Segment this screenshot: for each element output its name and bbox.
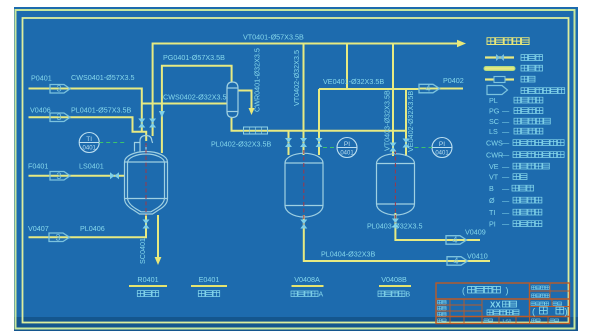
svg-text:3: 3 (56, 84, 61, 94)
text legend desc 无缝钢管 (513, 197, 542, 203)
svg-text:—: — (502, 208, 510, 217)
pipe VT0401-VE0401 tie (346, 44, 348, 90)
svg-text:V0406: V0406 (30, 106, 51, 115)
svg-text:V0407: V0407 (28, 224, 49, 233)
equipment tag V0408B (381, 275, 407, 284)
svg-text:VE: VE (489, 162, 499, 171)
vessel R0401 jacketed still (125, 136, 168, 215)
svg-text:—: — (502, 184, 510, 193)
svg-text:4: 4 (425, 84, 430, 94)
pipe VT0401 vapour header (153, 44, 459, 137)
svg-text:E0401: E0401 (199, 275, 220, 284)
centerline R0401 (145, 143, 147, 216)
valve on CWS0401 riser (138, 119, 145, 128)
svg-text:—: — (502, 139, 510, 148)
svg-text:PL0403-Ø32X3.5: PL0403-Ø32X3.5 (367, 222, 423, 231)
svg-text:VT0401-Ø57X3.5B: VT0401-Ø57X3.5B (243, 33, 304, 42)
pipe CWS0402 branch (142, 103, 227, 105)
connector pentagon V0406 (50, 113, 70, 122)
instrument PI0401 bubble B (432, 138, 452, 158)
instrument line PI-B (415, 147, 433, 149)
vessel V0408B (377, 154, 415, 215)
svg-text:V0408A: V0408A (294, 275, 320, 284)
text title tiny 设计 (438, 300, 447, 304)
svg-text:VE0401-Ø32X3.5B: VE0401-Ø32X3.5B (323, 77, 384, 86)
text title 工段 (503, 301, 517, 307)
svg-text:0401: 0401 (340, 150, 354, 156)
svg-text:PL0404-Ø32X3B: PL0404-Ø32X3B (321, 250, 376, 259)
text title 蒸馏流程图 (487, 310, 519, 315)
pipe VT0402 riser (303, 44, 305, 156)
svg-text:V0409: V0409 (465, 228, 486, 237)
pipe SC0401 drain (157, 215, 159, 259)
text legend desc 不锈钢 (512, 185, 534, 191)
svg-text:LS: LS (489, 127, 498, 136)
valve on PL0403 outlet (392, 219, 399, 228)
svg-text:CWR0401-Ø32X3.5: CWR0401-Ø32X3.5 (253, 48, 262, 112)
svg-text:VT: VT (489, 173, 499, 182)
svg-text:PG: PG (489, 107, 500, 116)
arrowhead SC0401 down (155, 257, 162, 265)
svg-text:PL0402-Ø32X3.5B: PL0402-Ø32X3.5B (211, 140, 272, 149)
svg-text:PI: PI (489, 220, 496, 229)
legend symbol continuation mark (487, 86, 508, 95)
centerline V0408B (394, 150, 396, 223)
pipe LS0401 main (29, 175, 126, 177)
svg-text:B: B (406, 292, 411, 299)
instrument line PI-A (323, 147, 337, 149)
vessel V0408A (285, 153, 323, 217)
svg-text:—: — (502, 127, 510, 136)
svg-text:—: — (502, 117, 510, 126)
valve on V0408A nozzle 3 (316, 138, 323, 147)
valve on VE0402 drop (403, 139, 410, 148)
svg-text:P0402: P0402 (443, 76, 464, 85)
text title tiny 比例 (484, 319, 493, 323)
pipe PL0404 from V0408A (304, 215, 490, 261)
svg-text:3: 3 (56, 171, 61, 181)
equipment tag R0401 (137, 275, 158, 284)
connector pentagon P0401 (50, 85, 70, 94)
connector pentagon V0410 (447, 257, 468, 266)
text title tiny 共页 (532, 319, 541, 323)
text legend title 图例及代号 (487, 38, 529, 45)
svg-text:1:50: 1:50 (502, 319, 512, 325)
vessel R0401 gooseneck (140, 136, 153, 152)
svg-text:SC0401: SC0401 (138, 238, 147, 264)
svg-text:CWS0401-Ø57X3.5: CWS0401-Ø57X3.5 (71, 73, 135, 82)
pipe VT0403 riser (392, 44, 394, 157)
svg-text:P0401: P0401 (31, 74, 52, 83)
svg-text:(: ( (462, 286, 465, 296)
pipe VE0402 drop (405, 89, 407, 156)
pipe PL0403 from V0408B (395, 213, 480, 240)
svg-text:VE0402-Ø32X3.5B: VE0402-Ø32X3.5B (406, 91, 415, 152)
text legend desc 压力指示 (513, 221, 542, 227)
vessel R0401 neck (135, 143, 147, 152)
svg-text:—: — (502, 107, 510, 116)
title block right cells (530, 290, 570, 292)
pipe CWS0401 main (29, 89, 142, 133)
valve on PL0404 outlet (300, 220, 307, 229)
text legend desc 循环冷却水回水 (513, 152, 564, 158)
svg-text:PG0401-Ø57X3.5B: PG0401-Ø57X3.5B (163, 53, 225, 62)
centerline V0408A (303, 150, 305, 225)
vessel E0401 condenser (227, 82, 238, 118)
text legend desc 循环冷却水上水 (513, 140, 564, 146)
svg-text:PL0401-Ø57X3.5B: PL0401-Ø57X3.5B (71, 106, 132, 115)
arrowhead CWR0401 down (249, 108, 255, 115)
svg-text:CWR: CWR (486, 151, 503, 160)
svg-text:XX: XX (490, 301, 501, 310)
text legend desc 温度指示 (513, 209, 542, 215)
svg-text:—: — (502, 196, 510, 205)
pipe PL0402 condenser bottom manifold (232, 118, 407, 131)
svg-text:PL0406: PL0406 (80, 224, 105, 233)
svg-text:TI: TI (489, 208, 495, 217)
svg-text:0401: 0401 (435, 150, 449, 156)
text title tiny 审定 (438, 319, 447, 323)
svg-text:—: — (502, 173, 510, 182)
legend symbol stop valve (485, 54, 514, 61)
pipe VE0401 drop into manifold (318, 89, 320, 155)
legend symbol insulated pipe (486, 66, 513, 71)
title block left cells (449, 299, 451, 324)
pipe P0402 stub after pentagon (439, 88, 463, 90)
equipment tag V0408A (294, 275, 320, 284)
text equipment name 蒸馏釜 (137, 291, 158, 297)
svg-text:SC: SC (489, 117, 499, 126)
svg-text:4: 4 (453, 256, 458, 266)
svg-text:VT0403-Ø32X3.5B: VT0403-Ø32X3.5B (383, 90, 392, 151)
bottom shading band (14, 317, 578, 331)
text title tiny 设计项目 (531, 302, 549, 306)
flow arrow on PG0401 drop (159, 111, 165, 118)
text legend desc 蒸汽冷凝水 (514, 118, 550, 124)
text equipment name 冷凝器 (198, 291, 219, 297)
svg-text:LS0401: LS0401 (79, 162, 104, 171)
svg-text:3: 3 (56, 112, 61, 122)
valve on LS0401 (110, 172, 119, 179)
text title tiny 第页 (553, 302, 562, 306)
text title tiny 第页2 (550, 319, 559, 323)
svg-text:—: — (502, 151, 510, 160)
text legend name 截止阀 (521, 55, 543, 61)
pipe VE0401 through pentagon (419, 88, 439, 90)
valve on PL0406 outlet (143, 220, 150, 229)
text title 单位名称 (468, 286, 501, 293)
svg-text:F0401: F0401 (28, 162, 48, 171)
text figno 图 号 (540, 307, 564, 314)
svg-text:VT0402-Ø32X3.5: VT0402-Ø32X3.5 (292, 50, 301, 106)
svg-text:V0408B: V0408B (381, 275, 407, 284)
pipe stub into V0408A left nozzle (288, 131, 290, 155)
text legend desc 真空排放气 (513, 163, 549, 169)
connector pentagon V0409 (446, 236, 467, 245)
equipment tag E0401 (199, 275, 220, 284)
text title tiny 工程名称 (532, 286, 550, 290)
legend code list (486, 96, 510, 229)
sight glass on PL0402 (244, 127, 268, 134)
valve on V0408A nozzle 1 (285, 138, 292, 147)
text title tiny 校核 (438, 312, 447, 316)
text equipment name 真空受槽B (378, 291, 405, 297)
svg-text:CWS: CWS (486, 139, 503, 148)
svg-text:): ) (506, 286, 509, 296)
svg-text:PI: PI (344, 141, 350, 148)
text title tiny 制图 (438, 306, 447, 310)
svg-text:A: A (319, 292, 324, 299)
svg-text:V0410: V0410 (467, 252, 488, 261)
text title tiny 设计阶段 (532, 294, 550, 298)
pipe CWR0401 (238, 91, 252, 110)
svg-text:B: B (489, 184, 494, 193)
svg-text:TI: TI (86, 136, 92, 143)
text legend desc 真空 (513, 174, 527, 180)
arrowhead VT0401 end (457, 40, 466, 47)
title block frame (436, 283, 570, 324)
instrument PI0401 bubble A (337, 138, 357, 158)
svg-text:—: — (502, 220, 510, 229)
svg-text:Ø: Ø (489, 196, 495, 205)
pipe PL0406 outlet (29, 215, 147, 238)
valve on VT0403 drop (390, 143, 397, 152)
svg-text:R0401: R0401 (137, 275, 158, 284)
connector pentagon P0402 (419, 84, 440, 93)
pipe PL0401 main (29, 117, 147, 141)
svg-text:PL: PL (489, 96, 498, 105)
text legend name 视镜 (521, 76, 535, 82)
svg-text:3: 3 (55, 232, 60, 242)
pipe VE0401 header (319, 88, 419, 90)
text legend desc 工艺气体 (514, 108, 543, 114)
text legend desc 低压蒸汽 (514, 128, 543, 134)
instrument line TI to R0401 (99, 142, 125, 144)
connector pentagon V0407 (49, 233, 70, 242)
svg-text:CWS0402-Ø32X3.5: CWS0402-Ø32X3.5 (163, 93, 227, 102)
instrument TI0401 bubble (79, 133, 99, 153)
pipe PG0401 (162, 66, 232, 153)
svg-text:PI: PI (439, 141, 445, 148)
text legend name 图纸接续标志 (521, 88, 565, 94)
svg-text:4: 4 (452, 235, 457, 245)
title block bottom band cells (498, 317, 500, 324)
connector pentagon F0401 (50, 172, 70, 181)
text legend name 保温管 (521, 65, 543, 71)
valve on VT gooseneck riser (149, 119, 156, 128)
text equipment name 真空受槽A (291, 291, 318, 297)
text legend desc 工艺液体 (514, 97, 543, 103)
valve on V0408A nozzle 2 (300, 138, 307, 147)
legend symbol sight glass (485, 77, 514, 83)
svg-text:): ) (565, 307, 568, 318)
svg-text:0401: 0401 (83, 146, 97, 152)
svg-text:—: — (502, 162, 510, 171)
